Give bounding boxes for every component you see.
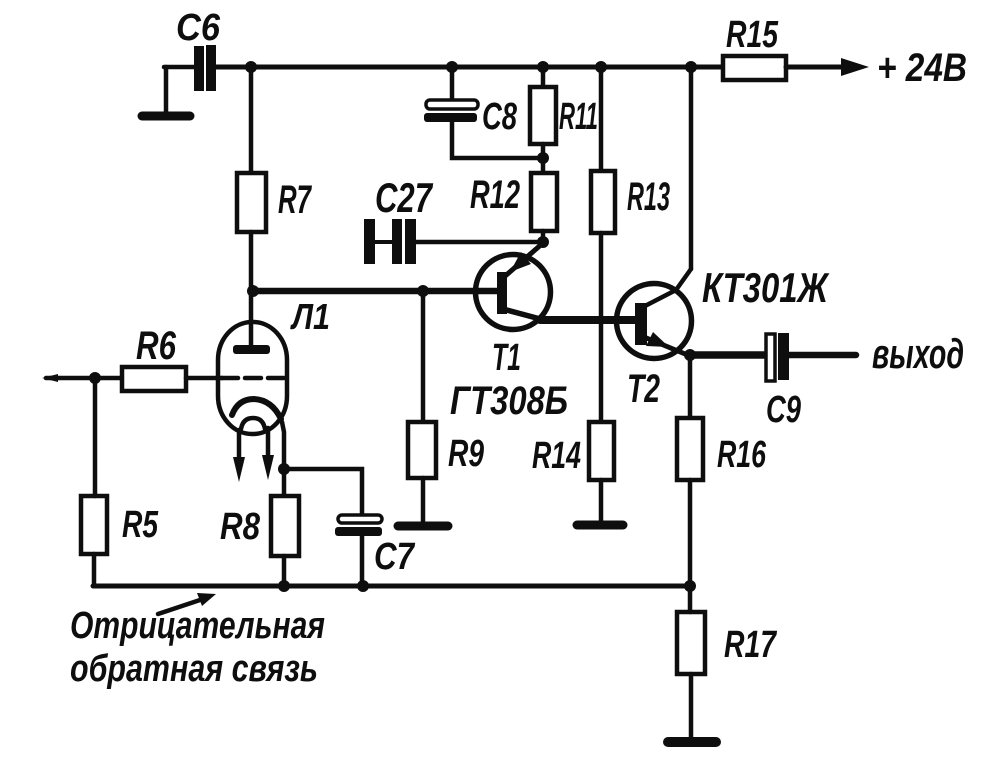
svg-text:С6: С6: [176, 7, 221, 49]
wire: R9 top lead from base wire: [421, 291, 426, 422]
vacuum tube L1 envelope: [218, 322, 287, 434]
wire: R9 bottom lead: [421, 478, 426, 522]
svg-text:выход: выход: [872, 330, 964, 377]
resistor R12: [531, 173, 557, 231]
transistor T2 (KT301Zh, NPN): [617, 269, 692, 359]
svg-text:R12: R12: [470, 173, 520, 217]
wire: T2 emitter node to output: [690, 351, 766, 359]
node: junction cathode / R8 / C7 branch: [278, 463, 290, 475]
wire: input line: [46, 376, 122, 381]
transistor T1 (GT308B, PNP): [476, 243, 551, 330]
wire: C8 bottom lead to R11/R12 node: [452, 122, 543, 158]
wire: R8 bottom lead: [282, 556, 287, 586]
wire: R13 to R14 / T2 base column: [599, 233, 604, 422]
arrow: +24V supply arrowhead: [841, 58, 869, 76]
tube cathode arc: [232, 399, 281, 419]
svg-text:С7: С7: [374, 536, 416, 578]
resistor R5: [81, 496, 107, 554]
wire: R11 top lead: [541, 67, 546, 87]
ground under R17: [668, 737, 716, 747]
wire: R7 top lead: [249, 67, 254, 173]
wire: top rail C6 to R15: [216, 65, 723, 70]
resistor R14: [589, 422, 614, 480]
wire: C9 to output terminal: [789, 352, 856, 359]
node: junction base wire / R9: [417, 285, 429, 297]
wire: R5 top lead: [93, 378, 98, 496]
svg-text:R17: R17: [724, 624, 777, 666]
wire: R5 bottom lead: [92, 554, 97, 586]
wire: R15 to +24V arrow: [786, 65, 846, 70]
tube anode plate: [233, 345, 270, 354]
svg-text:R15: R15: [726, 14, 779, 56]
node: junction R12 / C27 / T1 emitter: [537, 236, 549, 248]
wire: T2 collector riser to rail: [689, 67, 694, 269]
svg-text:R13: R13: [627, 175, 670, 219]
node: rail junction at R11: [537, 61, 549, 73]
wire: T1 base wire from node to T1: [251, 288, 499, 295]
wire: T1 collector to T2 base: [540, 316, 637, 324]
svg-text:R7: R7: [278, 178, 312, 222]
resistor R13: [591, 171, 615, 233]
tube heater arc: [241, 418, 265, 429]
node: junction bottom wire / C7: [357, 580, 369, 592]
svg-text:R8: R8: [220, 506, 261, 548]
capacitor C8: [424, 100, 478, 122]
svg-text:R14: R14: [532, 435, 581, 477]
wire: C7 bottom lead: [360, 536, 365, 586]
svg-text:Л1: Л1: [289, 296, 330, 337]
wire: R13 top lead: [599, 67, 604, 171]
wire: C27 to R12 node: [416, 240, 543, 245]
svg-text:С27: С27: [375, 174, 433, 221]
resistor R11: [530, 87, 556, 144]
wire: anode lead down into tube: [249, 291, 254, 350]
capacitor C9: [766, 333, 789, 381]
node: rail junction at C8: [446, 61, 458, 73]
svg-text:С9: С9: [766, 389, 801, 431]
wire: R14 bottom lead: [599, 480, 604, 521]
node: junction emitter / R16 / C9: [684, 349, 696, 361]
wire: branch to C7: [284, 469, 362, 516]
tube filament lead arrow left: [233, 430, 245, 482]
wire: R11 bottom lead: [541, 144, 546, 173]
ground (chassis) at C6: [142, 112, 190, 121]
wire: C8 top lead: [450, 67, 455, 102]
resistor R6: [122, 367, 186, 391]
ground under R9: [398, 522, 448, 531]
arrow: feedback label arrow: [158, 593, 216, 614]
capacitor C27: [364, 219, 416, 264]
node: rail junction at R7: [245, 61, 257, 73]
tube grid (dashed): [222, 376, 284, 381]
wire: R16 bottom lead to feedback node: [688, 480, 693, 586]
ground under R14: [577, 521, 623, 530]
tube filament lead arrow right: [262, 428, 274, 480]
node: junction bottom wire / R8: [278, 580, 290, 592]
capacitor C6: [194, 45, 216, 91]
wire: R7 bottom lead to grid/base node: [249, 232, 254, 291]
resistor R8: [271, 496, 299, 556]
wire: feedback bottom wire: [93, 584, 690, 589]
svg-text:R9: R9: [448, 433, 484, 475]
svg-text:Т1: Т1: [492, 337, 521, 379]
wire: C6 ground drop: [164, 67, 169, 114]
svg-text:R6: R6: [136, 324, 177, 368]
svg-text:С8: С8: [482, 96, 518, 138]
node: rail junction at T2 collector riser: [685, 61, 697, 73]
wire: node to R16: [688, 355, 693, 418]
node: rail junction at R13: [595, 61, 607, 73]
resistor R16: [677, 418, 703, 480]
svg-text:Т2: Т2: [627, 367, 660, 411]
arrow: input terminal tip: [42, 374, 58, 382]
wire: R17 top lead: [688, 586, 693, 612]
node: junction R11/R12/C8: [537, 152, 549, 164]
node: junction R7 / anode / base wire: [247, 285, 259, 297]
svg-text:+ 24В: + 24В: [877, 46, 967, 90]
svg-text:ГТ308Б: ГТ308Б: [450, 379, 568, 423]
resistor R17: [677, 612, 705, 674]
resistor R15: [723, 56, 786, 80]
wire: top rail left segment to C6: [164, 65, 194, 70]
node: junction R16/R17/feedback wire: [684, 580, 696, 592]
svg-text:R16: R16: [717, 434, 767, 476]
wire: R17 bottom lead: [689, 674, 694, 740]
capacitor C7: [335, 515, 382, 536]
svg-text:КТ301Ж: КТ301Ж: [702, 264, 830, 311]
resistor R7: [237, 173, 266, 232]
wire: C27 internal link: [375, 240, 392, 244]
svg-text:обратная связь: обратная связь: [70, 648, 318, 690]
node: junction input / R5: [89, 372, 101, 384]
wire: R6 to tube grid: [186, 376, 222, 381]
svg-text:Отрицательная: Отрицательная: [70, 605, 325, 647]
resistor R9: [408, 422, 436, 478]
wire: R12 bottom lead: [541, 231, 546, 242]
svg-text:R5: R5: [122, 504, 159, 546]
wire: cathode lead down to R8: [282, 422, 284, 496]
svg-text:R11: R11: [559, 96, 598, 138]
